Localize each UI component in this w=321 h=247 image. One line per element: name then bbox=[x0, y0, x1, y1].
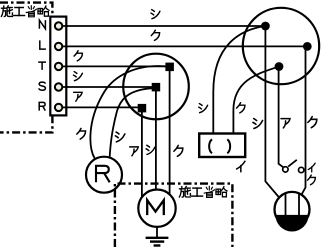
label 施工省略 (top-left) bbox=[1, 6, 49, 17]
wire to motor (black) bbox=[169, 66, 171, 198]
node A bbox=[261, 22, 270, 31]
dash-dot enclosure (top-left, construction omitted) bbox=[0, 3, 52, 133]
label kuro on node B drop wire bbox=[308, 117, 317, 128]
wire L (black) bbox=[66, 45, 306, 47]
wire to motor (white) bbox=[155, 87, 157, 192]
wire N (white) bbox=[66, 25, 265, 27]
wire T (black) bbox=[66, 65, 169, 67]
label aka on wire R bbox=[74, 92, 83, 101]
connector C3 (black square) bbox=[138, 104, 147, 113]
label aka on motor wire 1 bbox=[130, 147, 139, 156]
terminal T bbox=[55, 63, 62, 70]
label i under indicator box bbox=[237, 161, 245, 172]
wire lamp R black: up to connector C1 bbox=[90, 66, 165, 159]
label shiro on indicator left wire bbox=[199, 104, 208, 113]
terminal N bbox=[55, 22, 62, 29]
label kuro on wire T bbox=[74, 51, 82, 61]
ground symbol bbox=[156, 227, 158, 237]
label 施工省略 (bottom) bbox=[179, 186, 227, 197]
switch contact left bbox=[283, 167, 288, 172]
wire red: node C down to switch bbox=[279, 67, 284, 168]
label shiro on wire N bbox=[151, 10, 160, 19]
wire white: node A down to hanging lamp bbox=[265, 26, 280, 199]
dash-dot enclosure (bottom, construction omitted around motor) bbox=[115, 184, 232, 247]
indicator box ( ) bbox=[199, 134, 245, 158]
hanging ceiling lamp bbox=[275, 192, 310, 227]
node C bbox=[275, 62, 284, 71]
connector C1 (black square) bbox=[165, 63, 174, 72]
lamp receptacle R bbox=[86, 157, 122, 193]
wire R (red) bbox=[66, 106, 142, 108]
terminal R bbox=[55, 104, 62, 111]
junction box (outlet box, top-right circle) bbox=[243, 8, 319, 84]
connector C2 (black square) bbox=[152, 83, 161, 92]
label aka on switch drop wire bbox=[281, 119, 290, 128]
label shiro on motor wire 2 bbox=[146, 145, 155, 154]
label kuro on lamp R left wire bbox=[77, 128, 86, 139]
label shiro on lamp drop wire bbox=[253, 119, 263, 129]
terminal labels N L T S R bbox=[39, 20, 45, 29]
terminal stubs bbox=[63, 26, 69, 107]
terminal S bbox=[55, 83, 62, 90]
wire to motor (red) bbox=[141, 108, 143, 200]
label kuro on indicator right wire bbox=[237, 103, 245, 113]
label kuro below switch bbox=[307, 175, 315, 185]
wire black: node B down past switch to hanging lamp bbox=[301, 46, 306, 196]
label i at switch bbox=[308, 163, 315, 172]
terminal L bbox=[55, 43, 62, 50]
wire lamp R white: up to connector C2 bbox=[110, 88, 152, 158]
label kuro on wire L bbox=[151, 30, 159, 40]
switch lever bbox=[288, 160, 297, 167]
motor M bbox=[138, 190, 175, 227]
switch contact right bbox=[299, 167, 304, 172]
wire white: node A curve to indicator box bbox=[213, 26, 265, 134]
label kuro on motor wire 3 bbox=[174, 145, 183, 156]
wire black: node C curve to indicator box bbox=[233, 67, 279, 134]
node B bbox=[303, 42, 312, 51]
label shiro on lamp R right wire bbox=[115, 132, 125, 142]
junction box (outlet box, middle circle) bbox=[123, 54, 189, 120]
wire S (white) bbox=[66, 86, 156, 88]
terminal block TB bbox=[50, 17, 66, 116]
label shiro on wire S bbox=[74, 72, 83, 81]
